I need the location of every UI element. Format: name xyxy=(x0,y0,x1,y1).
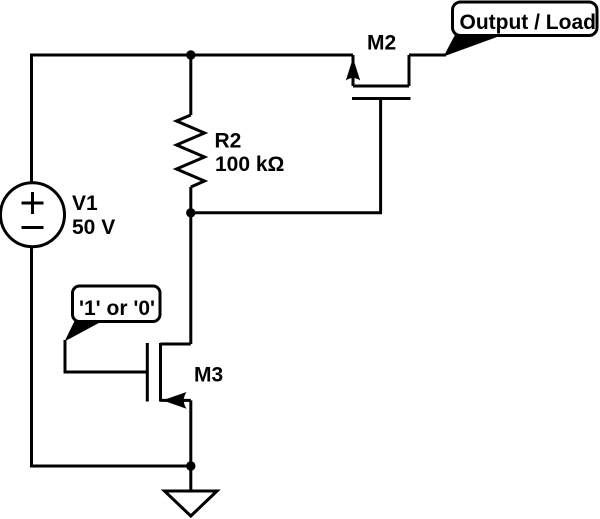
transistor M2 (PMOS) xyxy=(346,55,411,99)
wire R2 bottom lead to node xyxy=(189,187,192,214)
wire bottom-left rail (V1 bottom to ground node) xyxy=(32,247,191,467)
callout '1' or '0' xyxy=(65,286,161,342)
callout Output / Load xyxy=(444,2,598,57)
svg-text:M2: M2 xyxy=(367,31,396,54)
voltage source V1 xyxy=(1,183,65,247)
wire node to M2 gate xyxy=(191,99,381,213)
wire R2 top lead xyxy=(189,55,192,115)
junction node R2 / M2 gate / M3 drain xyxy=(186,208,195,217)
wire ground stub xyxy=(189,466,192,491)
ground xyxy=(165,491,218,516)
svg-text:M3: M3 xyxy=(194,364,223,387)
wire M2 drain to output callout xyxy=(409,54,446,57)
wire node to M3 drain xyxy=(189,213,192,344)
transistor M3 (NMOS) xyxy=(147,343,191,409)
svg-text:Output / Load: Output / Load xyxy=(460,11,596,34)
junction node top rail xyxy=(186,50,195,59)
svg-text:V1: V1 xyxy=(72,192,98,215)
wire M3 source to ground rail xyxy=(189,400,192,466)
svg-text:R2: R2 xyxy=(215,130,242,153)
wire top-left rail (V1 top to M2 source) xyxy=(32,55,354,183)
svg-text:100 kΩ: 100 kΩ xyxy=(215,153,284,176)
svg-text:'1' or '0': '1' or '0' xyxy=(79,297,155,320)
wire M3 gate to input callout xyxy=(65,340,147,372)
resistor R2 xyxy=(177,115,205,187)
junction node bottom rail xyxy=(186,461,195,470)
svg-text:50 V: 50 V xyxy=(72,216,115,239)
